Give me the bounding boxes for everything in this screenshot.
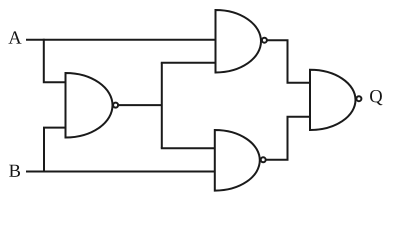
NAND gate U4 <box>310 70 361 130</box>
NAND gate U2 <box>216 10 267 73</box>
wire: A branch down to U1 top input <box>44 39 67 83</box>
wire: vertical distribution node <box>161 63 163 149</box>
wire: U1 output to node <box>119 104 162 106</box>
wire: node to U3 top input <box>161 147 217 149</box>
wire: node to U2 bottom input <box>161 62 217 64</box>
wire: B branch up to U1 bottom input <box>44 128 67 173</box>
wire: U2 output to U4 top input <box>267 40 311 82</box>
input label A <box>8 31 21 43</box>
NAND gate U3 <box>215 130 266 191</box>
wire: A to NAND U2 top input <box>26 39 217 41</box>
input label B <box>9 165 20 177</box>
wire: U3 output to U4 bottom input <box>266 117 311 160</box>
NAND gate U1 <box>66 73 119 138</box>
wire: B to NAND U3 bottom input <box>26 171 217 173</box>
output label Q <box>370 90 382 105</box>
